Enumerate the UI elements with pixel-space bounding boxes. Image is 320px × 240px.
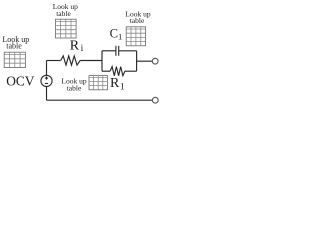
wire: bottom xyxy=(47,99,153,101)
terminal positive xyxy=(152,58,158,64)
lookup table icon (Ri) xyxy=(56,19,77,38)
capacitor C1 xyxy=(116,46,119,56)
wire: output top xyxy=(137,60,153,62)
wire: top from source to Ri xyxy=(47,60,61,62)
wire: capacitor to right edge xyxy=(119,50,137,52)
label Look up table (R1) xyxy=(61,77,86,93)
lookup table icon (C1) xyxy=(126,27,145,46)
svg-text:OCV: OCV xyxy=(6,73,35,88)
label Look up table (OCV) xyxy=(2,35,29,50)
resistor R1 xyxy=(110,67,125,76)
wire: parallel block left edge xyxy=(101,51,103,71)
label Look up table (C1) xyxy=(125,10,150,26)
wire: R1 to right edge xyxy=(125,70,137,72)
svg-text:table: table xyxy=(56,9,71,18)
voltage source OCV xyxy=(41,75,52,86)
wire: Ri to parallel block xyxy=(80,60,102,62)
resistor Ri xyxy=(61,56,80,65)
wire: parallel block right edge xyxy=(136,51,138,71)
terminal negative xyxy=(152,97,158,103)
wire: left vertical above source xyxy=(46,61,48,76)
svg-text:table: table xyxy=(67,83,82,92)
wire: left vertical below source xyxy=(46,87,48,101)
wire: top branch to capacitor xyxy=(102,50,116,52)
svg-text:table: table xyxy=(130,16,145,25)
label Look up table (Ri) xyxy=(53,2,78,18)
wire: bottom branch to R1 xyxy=(102,70,110,72)
svg-text:table: table xyxy=(6,41,22,50)
lookup table icon (OCV) xyxy=(4,52,25,67)
lookup table icon (R1) xyxy=(89,76,107,90)
